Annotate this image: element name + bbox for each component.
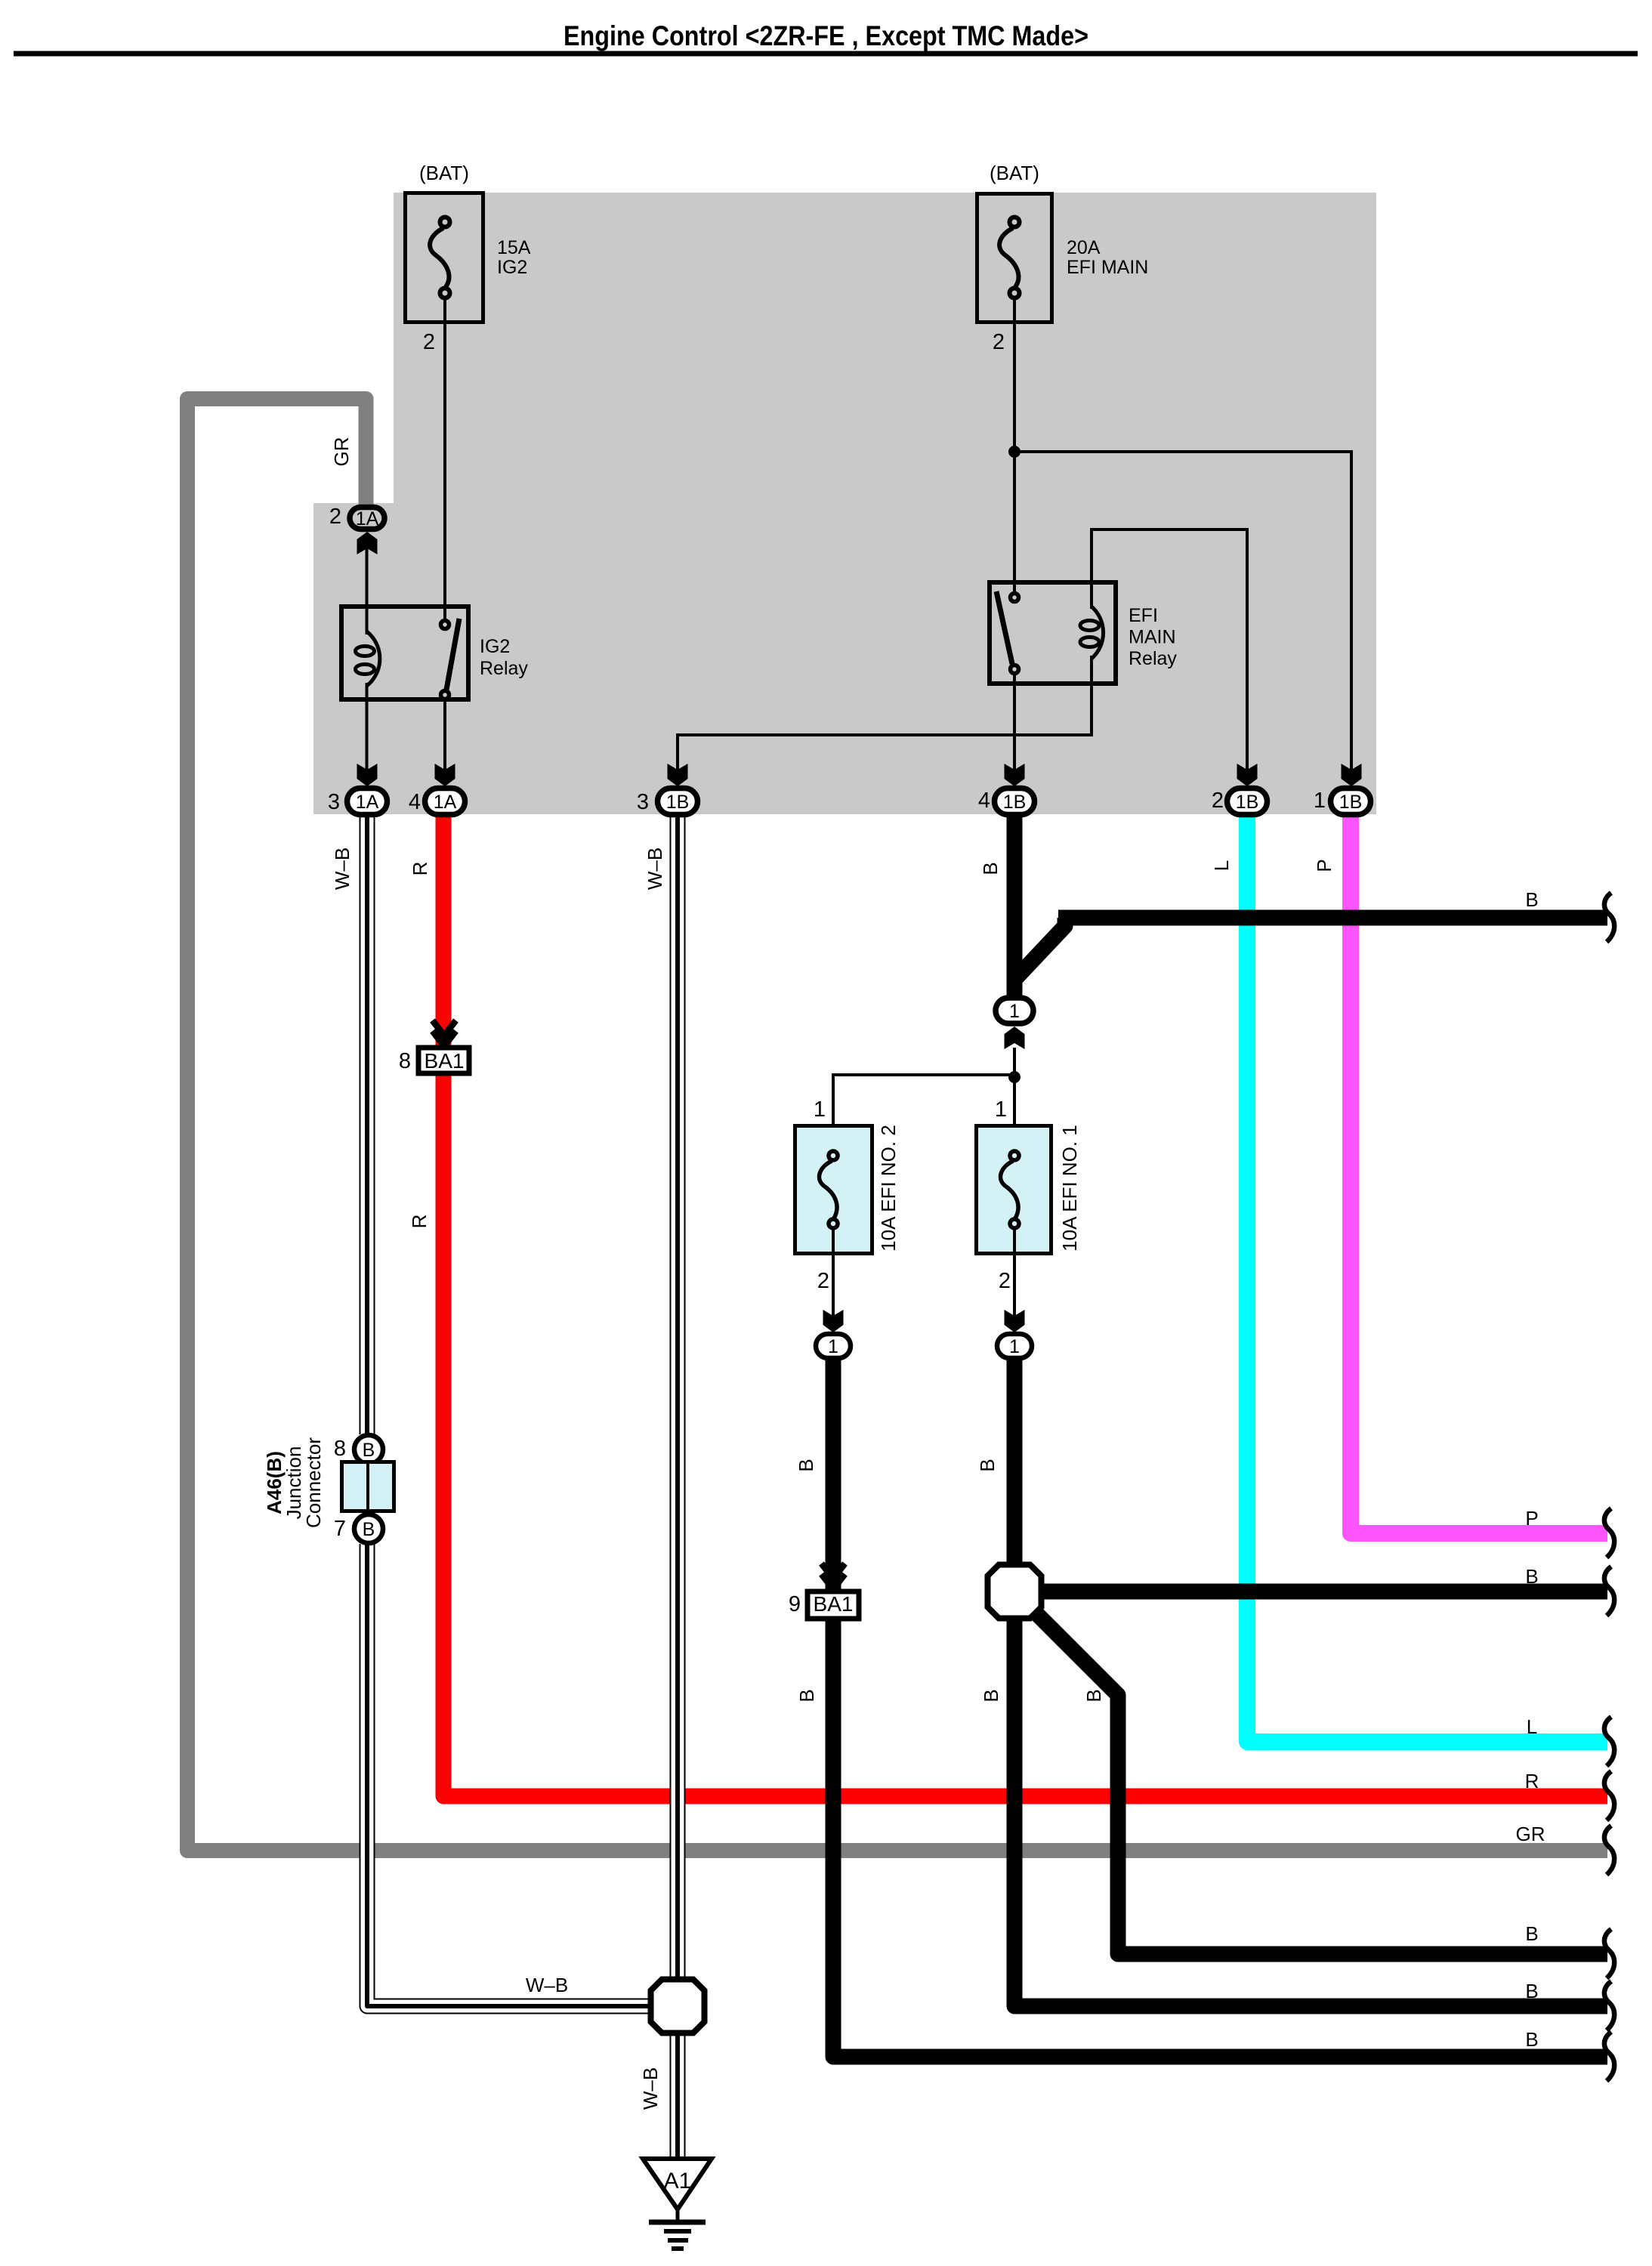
svg-text:1: 1	[1009, 1001, 1020, 1022]
svg-text:15A: 15A	[497, 237, 531, 258]
svg-text:1: 1	[1009, 1336, 1020, 1357]
break squiggle B lower3	[1604, 2032, 1614, 2081]
break squiggle P	[1604, 1508, 1614, 1557]
wire B octagon diagonal to right edge	[1030, 1607, 1607, 1954]
junction octagon (B wires)	[988, 1565, 1042, 1619]
svg-text:1: 1	[828, 1336, 838, 1357]
fuse 10A EFI NO.1 box	[977, 1126, 1051, 1254]
ground stem	[676, 2209, 680, 2221]
svg-text:W–B: W–B	[644, 847, 666, 890]
ground A1 triangle	[643, 2159, 712, 2209]
svg-text:2: 2	[817, 1269, 829, 1293]
relay EFI MAIN switch	[996, 591, 1012, 664]
svg-text:A1: A1	[664, 2169, 692, 2193]
svg-text:2: 2	[423, 330, 435, 354]
svg-text:2: 2	[1212, 789, 1224, 813]
svg-text:8: 8	[334, 1437, 346, 1461]
svg-text:4: 4	[409, 790, 421, 814]
svg-text:MAIN: MAIN	[1129, 627, 1176, 648]
svg-text:1A: 1A	[434, 792, 457, 813]
wire: lead EFI MAIN coil top loop to 2(1B) arrow	[1092, 529, 1247, 783]
break squiggle GR	[1604, 1826, 1614, 1875]
svg-text:2: 2	[993, 330, 1005, 354]
wire W-B from 3(1A) to A46 junction	[360, 814, 375, 1434]
relay IG2 coil	[356, 631, 380, 686]
connector oval 2(1A)	[350, 508, 384, 529]
break squiggle L	[1604, 1717, 1614, 1766]
wire W-B from 3(1B) down to octagon	[670, 814, 686, 1981]
wire B diagonal branch to horizontal	[1014, 918, 1065, 980]
svg-text:B: B	[363, 1519, 375, 1540]
title rule	[14, 51, 1638, 57]
breakout box BA1 (8)	[418, 1048, 469, 1073]
break squiggle B lower2	[1604, 1981, 1614, 2030]
svg-text:9: 9	[789, 1592, 801, 1616]
wire B from 1 oval (right) down to octagon	[1007, 1359, 1023, 1566]
break squiggle B top	[1604, 893, 1614, 942]
svg-text:B: B	[979, 862, 1002, 875]
wire: thin lead splice to node dot	[1013, 1048, 1016, 1124]
svg-text:1: 1	[1314, 789, 1326, 813]
arrow down into splice 1 (right)	[1005, 1310, 1025, 1332]
svg-text:20A: 20A	[1067, 237, 1101, 258]
svg-text:B: B	[1525, 2028, 1538, 2051]
svg-text:1A: 1A	[356, 508, 379, 529]
svg-text:Relay: Relay	[1129, 648, 1177, 669]
svg-text:P: P	[1313, 859, 1335, 872]
wire W-B from A46 junction to W-B octagon	[367, 1544, 653, 2006]
wire GR (gray) big loop from 2(1A) to right edge	[187, 399, 1607, 1851]
wire L (cyan) from 2(1B) to right edge	[1247, 814, 1607, 1742]
wire B from 4(1B) down to 1 oval	[1007, 814, 1023, 997]
svg-text:1B: 1B	[1339, 792, 1363, 813]
fuse 10A EFI NO.2 box	[795, 1126, 872, 1254]
svg-text:B: B	[795, 1689, 818, 1702]
svg-text:10A EFI NO. 1: 10A EFI NO. 1	[1058, 1125, 1081, 1252]
fuse 20A EFI MAIN element	[999, 228, 1018, 287]
svg-text:L: L	[1210, 860, 1233, 871]
connector oval 4(1A)	[425, 789, 465, 815]
svg-text:(BAT): (BAT)	[419, 162, 469, 184]
arrow down into 4(1B)	[1005, 764, 1025, 786]
wire: lead IG2 switch bottom to 4(1A) arrow	[443, 692, 446, 783]
svg-text:7: 7	[334, 1517, 346, 1541]
arrow down into 1(1B)	[1342, 764, 1362, 786]
wire: lead IG2 coil bottom to 3(1A) arrow	[366, 683, 369, 783]
svg-text:3: 3	[637, 790, 649, 814]
wire: lead EFI MAIN switch bottom to 4(1B) arrow	[1013, 668, 1016, 783]
svg-text:R: R	[1525, 1770, 1539, 1792]
connector oval 3(1A)	[347, 789, 388, 815]
wire W-B octagon to ground A1	[670, 2032, 686, 2160]
svg-text:EFI: EFI	[1129, 605, 1158, 626]
relay IG2 switch	[446, 619, 459, 690]
splice oval 1 (left lower)	[816, 1334, 851, 1358]
wire: lead 20A fuse to EFI MAIN relay switch	[1013, 298, 1016, 594]
svg-text:P: P	[1525, 1507, 1538, 1530]
svg-text:R: R	[409, 862, 431, 876]
svg-text:(BAT): (BAT)	[990, 162, 1039, 184]
svg-text:BA1: BA1	[814, 1592, 854, 1616]
connector oval 4(1B)	[995, 789, 1035, 815]
wire: lead EFI NO.1 bottom to splice arrow	[1013, 1229, 1016, 1329]
arrow down into 3(1A)	[357, 764, 378, 786]
fuse 20A EFI MAIN box	[977, 194, 1052, 323]
svg-text:IG2: IG2	[497, 257, 527, 278]
junction connector A46(B) box	[342, 1462, 394, 1511]
arrow chevrons into BA1 (8)	[433, 1020, 456, 1036]
splice oval 1 (upper)	[996, 998, 1033, 1023]
svg-text:1: 1	[814, 1097, 826, 1122]
arrow down into 3(1B)	[668, 764, 688, 786]
svg-text:1: 1	[995, 1097, 1007, 1122]
junction connector A46(B) circle 7	[354, 1514, 383, 1543]
node: junction dot at 20A feed	[1008, 446, 1021, 458]
junction connector A46(B) circle 8	[354, 1435, 383, 1464]
svg-text:GR: GR	[1516, 1823, 1545, 1845]
connector oval 3(1B)	[658, 789, 698, 815]
arrow chevrons into BA1 (9)	[822, 1564, 845, 1579]
svg-text:2: 2	[329, 505, 341, 529]
arrow down into 4(1A)	[435, 764, 455, 786]
arrow up into 2(1A)	[357, 532, 378, 554]
svg-text:B: B	[1525, 1922, 1538, 1945]
svg-text:W–B: W–B	[526, 1974, 568, 1996]
wire: lead 15A fuse to IG2 relay switch	[443, 298, 446, 622]
wire P (magenta) from 1(1B) to right edge	[1351, 814, 1607, 1533]
wire: lead IG2 coil top to 2(1A) arrow	[366, 538, 369, 634]
wire B octagon right to edge	[1039, 1584, 1607, 1600]
svg-text:1B: 1B	[1236, 792, 1259, 813]
wire B octagon bottom to right edge	[1014, 1616, 1607, 2006]
svg-text:B: B	[980, 1689, 1002, 1702]
junction octagon (W-B wires)	[651, 1980, 705, 2033]
connector oval 2(1B)	[1227, 789, 1268, 815]
fuse 10A EFI NO.1 element	[1000, 1161, 1018, 1218]
svg-text:10A EFI NO. 2: 10A EFI NO. 2	[877, 1125, 900, 1252]
svg-text:2: 2	[999, 1269, 1011, 1293]
wire: lead EFI MAIN coil bottom to 3(1B) arrow	[678, 656, 1092, 783]
svg-text:1B: 1B	[1003, 792, 1027, 813]
svg-text:EFI MAIN: EFI MAIN	[1067, 257, 1148, 278]
wire B horizontal to right edge (top)	[1058, 910, 1607, 926]
wire: branch from node to 1(1B) arrow	[1014, 452, 1351, 783]
svg-text:GR: GR	[330, 437, 353, 467]
svg-text:3: 3	[328, 790, 340, 814]
svg-text:8: 8	[399, 1049, 411, 1073]
svg-text:B: B	[1525, 1565, 1538, 1588]
svg-text:W–B: W–B	[331, 847, 354, 890]
svg-text:IG2: IG2	[480, 636, 510, 657]
wire: lead EFI NO.2 bottom to splice arrow	[832, 1229, 835, 1329]
node: junction dot above EFI NO.1	[1008, 1071, 1021, 1083]
wire R (red) from 4(1A) through BA1 to right edge	[436, 814, 452, 1048]
relay EFI MAIN coil	[1080, 607, 1104, 659]
svg-text:Connector: Connector	[302, 1437, 325, 1528]
arrow down into 2(1B)	[1237, 764, 1258, 786]
relay EFI MAIN box	[990, 582, 1116, 684]
svg-text:1A: 1A	[356, 792, 379, 813]
relay IG2 box	[341, 607, 468, 699]
break squiggle R	[1604, 1771, 1614, 1820]
arrow up into splice 1	[1005, 1026, 1025, 1049]
svg-text:Relay: Relay	[480, 658, 528, 679]
svg-text:B: B	[1525, 888, 1538, 911]
arrow down into splice 1 (left)	[823, 1310, 844, 1332]
breakout box BA1 (9)	[807, 1591, 859, 1619]
ground bars	[649, 2220, 706, 2225]
svg-text:B: B	[1082, 1689, 1105, 1702]
svg-text:1B: 1B	[666, 792, 690, 813]
svg-text:R: R	[408, 1215, 431, 1229]
svg-text:L: L	[1527, 1715, 1537, 1738]
wire: thin branch to EFI NO.2 fuse	[833, 1075, 1014, 1124]
svg-text:B: B	[363, 1440, 375, 1461]
fuse 15A IG2 element	[430, 228, 449, 287]
svg-text:B: B	[976, 1459, 999, 1471]
svg-text:Engine Control <2ZR-FE , Excep: Engine Control <2ZR-FE , Except TMC Made…	[564, 20, 1088, 51]
fuse 10A EFI NO.2 element	[819, 1161, 837, 1218]
break squiggle B lower1	[1604, 1929, 1614, 1978]
svg-text:W–B: W–B	[639, 2067, 662, 2110]
svg-text:4: 4	[978, 789, 990, 813]
svg-text:B: B	[1525, 1980, 1538, 2002]
splice oval 1 (right lower)	[997, 1334, 1032, 1358]
gray panel (relay block background)	[313, 193, 1376, 814]
wire B from 1 oval (left) down through BA1 to right edge	[826, 1359, 841, 1592]
svg-text:BA1: BA1	[425, 1049, 465, 1073]
connector oval 1(1B)	[1331, 789, 1371, 815]
fuse 15A IG2 box	[406, 193, 483, 323]
svg-text:B: B	[795, 1459, 817, 1471]
break squiggle B octagon	[1604, 1567, 1614, 1616]
